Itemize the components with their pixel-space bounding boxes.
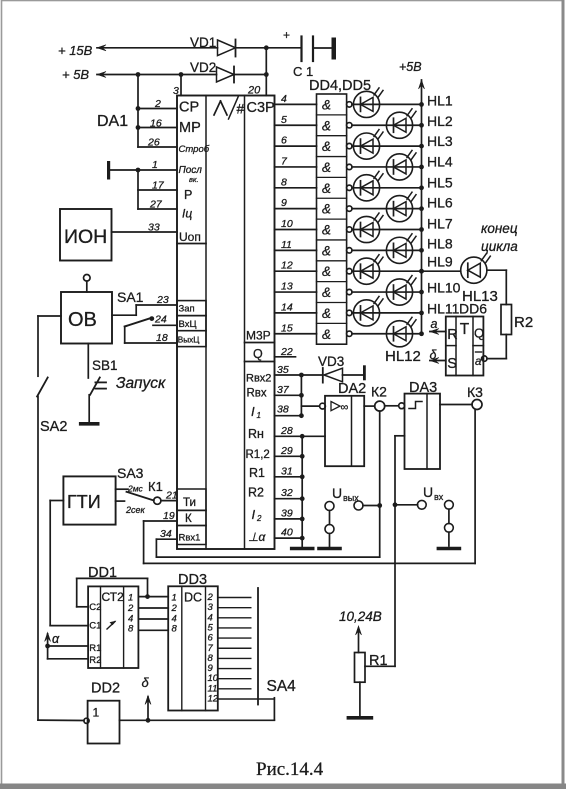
flip-flop DD6 [446,301,487,376]
svg-text:а: а [475,356,481,368]
svg-text:U: U [332,485,342,501]
svg-text:R1: R1 [89,643,101,654]
svg-text:⊥α: ⊥α [248,530,266,544]
svg-text:конец: конец [481,221,518,236]
svg-text:14: 14 [281,301,293,313]
wires pins 4-15 to gates [275,93,317,334]
op-amp DA2 [320,381,367,466]
svg-text:2: 2 [127,603,134,614]
svg-text:1: 1 [152,159,158,171]
svg-text:HL4: HL4 [427,153,453,169]
svg-text:23: 23 [156,294,169,306]
svg-text:Запуск: Запуск [116,375,166,392]
wire ION to pin 33 [112,222,178,234]
svg-text:R1: R1 [249,466,265,480]
wire HL13 to R2 [487,270,506,304]
svg-text:4: 4 [281,93,287,105]
node b arrow DD2 [142,675,152,720]
wire VD1 to C1 junction [236,45,302,50]
svg-text:1: 1 [128,593,133,604]
LED HL2 [352,109,453,139]
svg-text:27: 27 [149,199,163,211]
wire 10.24V arrow [356,626,362,653]
diode VD1 [190,35,236,57]
svg-text:І: І [251,404,255,419]
pin 3 stub [173,75,181,98]
IC left column pin names [177,100,210,245]
svg-text:&: & [322,97,331,112]
svg-text:І: І [252,507,256,522]
svg-text:1: 1 [172,593,177,604]
svg-text:&: & [322,264,331,279]
svg-text:К3: К3 [467,384,483,400]
svg-text:12: 12 [281,260,293,272]
node bus 35-37-38 [301,375,319,416]
diode VD3 [318,354,366,383]
svg-text:+: + [283,28,290,42]
LED HL1 [352,88,453,118]
decoder DD3 [168,572,274,711]
wire VD2 to junction [234,72,269,77]
svg-text:HL7: HL7 [427,215,453,231]
svg-text:7: 7 [281,155,288,167]
svg-text:DA2: DA2 [338,381,366,397]
svg-text:C1: C1 [89,621,101,632]
svg-text:+ 15В: + 15В [58,43,93,58]
svg-text:α: α [52,632,60,646]
svg-text:11: 11 [281,239,292,251]
node a arrow DD1 [45,632,89,659]
switch SA4 [258,588,296,720]
node ground bus right column [292,436,313,548]
svg-text:R2: R2 [89,655,101,666]
switch SA3 K1 [116,465,178,515]
svg-text:ВхЦ: ВхЦ [179,319,197,330]
svg-text:DD2: DD2 [91,681,120,697]
svg-text:HL3: HL3 [427,133,453,149]
svg-text:&: & [322,160,331,175]
svg-text:Р: Р [184,188,192,202]
svg-text:Рис.14.4: Рис.14.4 [256,759,324,780]
svg-text:HL5: HL5 [427,174,453,190]
wire rail to HL13 [419,269,461,274]
svg-text:&: & [322,306,331,321]
svg-text:цикла: цикла [481,239,518,254]
svg-text:Rвх2: Rвх2 [246,373,271,385]
svg-text:&: & [322,139,331,154]
inverter DD2 [84,681,120,744]
svg-text:R2: R2 [248,486,264,500]
svg-text:R1,2: R1,2 [246,449,270,461]
svg-text:&: & [322,118,331,133]
svg-text:37: 37 [277,384,290,396]
svg-text:39: 39 [281,507,293,519]
svg-text:SA3: SA3 [117,465,144,481]
svg-text:Q: Q [253,347,263,361]
svg-text:28: 28 [280,425,293,437]
LED HL6 [352,192,453,222]
wires DD1 to DD3 [138,597,168,631]
gates DD4 DD5 [309,78,371,344]
svg-text:К1: К1 [148,479,163,494]
resistor R2 [501,305,533,335]
svg-text:HL2: HL2 [427,113,453,129]
button SB1 Zapusk [81,344,166,424]
LED HL4 [352,150,453,180]
net +5V label left [62,67,89,82]
LED HL9 [352,253,453,284]
wire OV left to SA2 rail [38,315,61,317]
svg-text:38: 38 [277,404,289,416]
LED HL5 [352,171,453,201]
LED HL8 [352,234,453,264]
wires pins 28-40 ladder [275,425,326,541]
svg-text:ОВ: ОВ [68,309,97,331]
op-amp U1 main ADC IC DA1 outline [177,96,275,550]
svg-text:10: 10 [281,218,293,230]
terminal K2 [364,384,398,412]
svg-text:VD2: VD2 [190,60,216,75]
svg-text:22: 22 [280,346,293,358]
svg-text:1: 1 [257,411,261,420]
svg-text:DC: DC [184,591,202,605]
svg-text:S: S [447,356,457,372]
svg-text:С 1: С 1 [293,64,313,79]
node DA1 bus pins 2-16-26 [136,75,177,149]
svg-text:18: 18 [156,332,168,344]
svg-text:8: 8 [128,624,134,635]
svg-text:Rн: Rн [248,427,264,441]
svg-text:10,24В: 10,24В [339,609,382,624]
svg-text:VD1: VD1 [190,35,216,50]
svg-text:SA2: SA2 [40,419,67,435]
svg-text:31: 31 [281,465,293,477]
IC sub-box Ti K Rvh1 [160,489,206,545]
IC sub-box Zap VhC VyhC [177,301,206,347]
svg-text:24: 24 [154,314,167,326]
wire pin 38 [275,404,304,419]
svg-text:М3Р: М3Р [246,329,271,343]
svg-text:СР: СР [179,100,199,116]
LED HL7 [352,213,453,243]
LED HL13 [461,254,498,305]
svg-text:34: 34 [160,528,172,540]
svg-text:Q: Q [474,326,484,341]
LED HL10 [352,276,461,306]
wire DD2 output to SA4 [120,718,275,723]
svg-text:#: # [237,101,245,117]
svg-text:&: & [322,243,331,258]
wire pin 37 [275,384,304,398]
terminal Uvh [393,484,460,549]
svg-text:40: 40 [281,527,293,539]
svg-text:12: 12 [208,694,219,705]
terminal Uvyh [319,485,382,549]
resistor R1 [355,653,396,683]
svg-text:1: 1 [93,706,100,720]
svg-text:Строб: Строб [179,144,210,155]
svg-text:21: 21 [165,490,178,502]
svg-text:Іц: Іц [182,207,192,221]
svg-text:&: & [322,285,331,300]
svg-text:T: T [460,321,470,338]
svg-text:35: 35 [277,364,289,376]
svg-text:вк.: вк. [189,175,199,184]
wire R1 to ground [348,682,371,718]
wire pin 34 Rvh1 to K2 [156,411,379,557]
node bus pins 1-17-27 [110,159,177,211]
svg-text:26: 26 [147,137,160,149]
svg-text:HL6: HL6 [427,195,453,211]
svg-text:13: 13 [281,281,293,293]
counter DD1 [88,565,138,668]
svg-text:HL8: HL8 [427,236,453,252]
svg-text:δ: δ [142,675,150,690]
svg-text:5: 5 [281,114,287,126]
wire DD1 out1 to C2 loop [77,578,150,606]
wire +5V rail [97,72,217,78]
block OV one-shot [61,275,112,344]
svg-text:вх: вх [434,492,444,502]
svg-text:9: 9 [281,197,287,209]
wire OV output to pin 23 [112,294,177,315]
wire GTI left down to DD1.C1 [50,501,87,626]
diode VD2 [190,60,234,83]
label konets tsikla [481,221,518,254]
svg-text:К2: К2 [371,384,387,400]
LED HL11 [352,296,460,326]
svg-text:HL10: HL10 [427,279,461,295]
switch SA1 [117,289,177,344]
svg-text:Rвх: Rвх [247,388,267,400]
svg-text:СТ2: СТ2 [102,590,125,604]
svg-text:C2: C2 [89,602,101,613]
svg-text:ВыхЦ: ВыхЦ [178,336,200,345]
svg-text:U: U [423,484,433,500]
svg-text:32: 32 [281,487,293,499]
svg-text:SA1: SA1 [117,289,144,305]
net 10.24V label [339,609,382,624]
node b input to DD6 S [430,348,446,364]
svg-text:Uоп: Uоп [179,230,201,244]
svg-text:&: & [322,181,331,196]
svg-text:&: & [322,223,331,238]
LED HL3 [352,130,453,160]
capacitor C1 [283,28,336,79]
wire SA2 to DD2 input [38,719,84,721]
svg-text:HL12: HL12 [385,348,421,365]
svg-text:HL9: HL9 [427,253,453,269]
caption Ris.14.4 [256,759,324,780]
svg-text:&: & [322,327,331,342]
svg-text:а: а [431,317,438,331]
wire R2 to DD6 notQ [482,335,507,362]
block GTI clock generator [63,476,115,524]
net +15V label [58,43,93,58]
svg-text:2: 2 [256,514,262,523]
svg-text:17: 17 [152,180,165,192]
svg-text:Ти: Ти [183,497,196,509]
svg-text:ИОН: ИОН [64,226,107,248]
comparator DA3 [399,380,440,469]
switch SA2 [37,316,67,720]
terminal K3 [440,384,483,410]
LED HL12 [352,317,422,365]
svg-text:SB1: SB1 [92,358,118,373]
svg-text:DA1: DA1 [97,113,128,130]
svg-text:R: R [447,327,457,343]
svg-text:33: 33 [148,222,160,234]
svg-text:2: 2 [171,603,178,614]
svg-text:HL1: HL1 [427,93,453,109]
wire +5V LED rail [399,60,425,336]
svg-text:К: К [185,513,192,525]
wire pin 35 [275,364,322,377]
svg-text:МР: МР [179,120,201,136]
svg-text:HL11: HL11 [427,300,460,316]
svg-text:С3Р: С3Р [247,100,275,116]
svg-text:2сек: 2сек [125,505,146,515]
wire +15V rail [97,45,218,51]
svg-text:&: & [322,202,331,217]
svg-text:R2: R2 [514,314,533,331]
svg-text:2: 2 [154,98,161,110]
wire pin 19 K to K3 [144,410,476,564]
IC column header A/# symbol [214,96,245,119]
svg-text:8: 8 [172,624,178,635]
block ION reference source [60,209,112,261]
svg-text:∞: ∞ [341,402,349,414]
electrode tick symbol [107,161,110,180]
svg-text:+5В: +5В [399,60,422,74]
svg-text:Зап: Зап [179,304,195,315]
svg-text:SA4: SA4 [267,678,297,695]
svg-text:ГТИ: ГТИ [67,492,101,512]
IC label M3P and Q box [245,329,296,362]
IC column header C3P [247,100,275,116]
svg-text:VD3: VD3 [318,354,344,369]
wire junction to pin 20 [247,48,266,97]
svg-text:3: 3 [173,85,179,97]
op-amp DA1 label [97,113,128,130]
svg-text:6: 6 [281,135,287,147]
svg-text:Rвх1: Rвх1 [179,533,201,544]
wire DA3 second input [395,436,405,667]
svg-text:16: 16 [150,118,162,130]
svg-text:+ 5В: + 5В [62,67,89,82]
svg-text:8: 8 [281,176,287,188]
svg-text:DD6: DD6 [459,301,487,317]
svg-text:15: 15 [281,322,293,334]
svg-text:29: 29 [280,445,293,457]
node a input to DD6 R [430,317,446,335]
IC right column lower pin names [246,373,272,545]
